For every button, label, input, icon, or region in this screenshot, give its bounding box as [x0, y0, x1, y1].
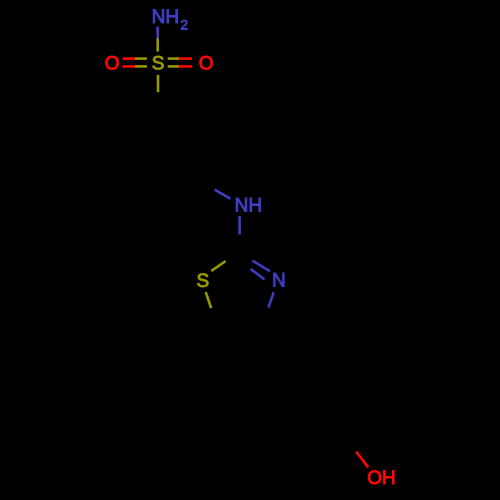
svg-text:S: S	[152, 54, 165, 75]
svg-text:O: O	[105, 54, 120, 75]
wire double bond S=O left (red halves)	[123, 57, 135, 60]
wire double bond C2=N3 main line (carbon half, invisible)	[239, 253, 252, 261]
wire double bond S=O left (sulfur halves)	[135, 57, 147, 60]
svg-text:S: S	[197, 271, 210, 292]
wire bond S-C1 (sulfur half)	[157, 75, 160, 92]
wire bond C2-C3 chain (invisible)	[197, 133, 200, 180]
wire bond N3-C4 thiazole (blue half)	[268, 292, 273, 307]
wire double bond C2=N3 inner line (carbon half, invisible)	[238, 261, 250, 270]
wire bond N-S sulfonamide (blue half)	[156, 27, 159, 39]
wire double bond S=O right (sulfur halves)	[168, 57, 179, 60]
wire bond N-C2 thiazole (blue half)	[238, 216, 241, 234]
phenyl ring (invisible carbon bonds)	[272, 352, 364, 449]
wire bond S1-C5 thiazole (carbon half, invisible)	[211, 308, 216, 324]
svg-text:OH: OH	[367, 468, 396, 489]
wire double bond C2=N3 main line (blue half)	[253, 261, 270, 272]
wire bond C3-N amine (blue half)	[215, 190, 231, 199]
svg-text:N: N	[272, 270, 286, 291]
wire bond C1-C2 chain (invisible)	[158, 110, 199, 133]
svg-text:O: O	[199, 54, 214, 75]
wire bond S-C1 (carbon half, invisible)	[157, 92, 160, 110]
wire bond C2-S1 thiazole (sulfur half)	[211, 261, 225, 271]
wire bond N3-C4 thiazole (carbon half, invisible)	[263, 308, 269, 325]
wire bond N-S sulfonamide (sulfur half)	[156, 39, 159, 52]
wire double bond S=O right (red halves)	[179, 57, 192, 60]
svg-text:NH: NH	[235, 196, 262, 217]
wire double bond C2=N3 inner line (blue half)	[251, 269, 265, 279]
wire bond C4'-O phenol (carbon half, invisible)	[346, 438, 357, 451]
wire bond C4-C1' phenyl (invisible)	[263, 324, 291, 362]
wire bond C4'-O phenol (red half)	[356, 452, 368, 468]
wire bond C4=C5 thiazole (invisible)	[216, 323, 262, 326]
wire bond N-C2 thiazole (carbon half, invisible)	[238, 234, 241, 252]
wire bond S1-C5 thiazole (sulfur half)	[206, 292, 212, 308]
wire bond C2-S1 thiazole (carbon half, invisible)	[226, 253, 240, 261]
wire bond C3-N amine (carbon half, invisible)	[199, 180, 215, 189]
